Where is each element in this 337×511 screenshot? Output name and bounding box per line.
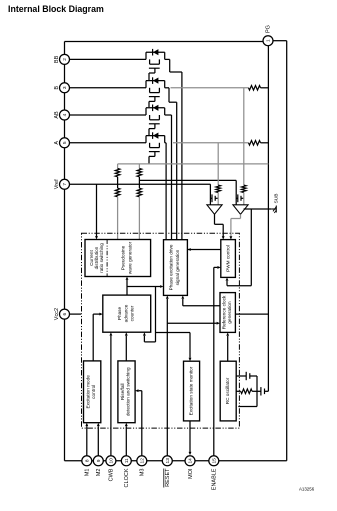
wire CWB to phase advance counter (110, 336, 112, 456)
svg-text:SUB: SUB (274, 193, 280, 203)
pin 4 (AB) (54, 110, 70, 120)
wire B line extension (171, 87, 249, 89)
wire phase excitation to reference clock (182, 299, 184, 306)
resistor R2 (A line to PG) (249, 141, 261, 146)
svg-text:M1: M1 (85, 469, 91, 477)
wire R2 to PG bus (261, 142, 269, 144)
wire IC frame left edge (64, 42, 66, 461)
pin 12 (M3) (137, 456, 147, 476)
svg-text:4: 4 (62, 113, 68, 116)
svg-text:6: 6 (62, 312, 68, 315)
svg-text:M2: M2 (96, 469, 102, 477)
pin 8 (M1) (82, 456, 92, 476)
chip boundary (dash-dot) (82, 233, 240, 428)
transistor Q4 (output A) (70, 132, 167, 239)
pin 2 (BB) (54, 54, 70, 64)
svg-text:9: 9 (96, 459, 102, 462)
wire divider2 tap line (139, 179, 236, 181)
wire excitation state monitor to MOI (189, 421, 191, 452)
svg-text:CWB: CWB (109, 468, 115, 481)
wire IC frame bottom edge (65, 460, 287, 462)
wire comp2 output (240, 214, 242, 218)
svg-text:B: B (54, 86, 60, 90)
wire RESET to phase excitation (166, 299, 168, 456)
wire pseudosine to phase advance counter (126, 280, 128, 295)
svg-text:Vcc2: Vcc2 (54, 308, 60, 320)
svg-text:8: 8 (85, 459, 91, 462)
resistor divider D1 (115, 164, 120, 240)
svg-text:12: 12 (140, 458, 146, 464)
wire RC osc mid lead (236, 390, 241, 392)
wire Vcc2 right segment (235, 313, 268, 315)
wire comp1 sense leg (217, 143, 219, 185)
wire Vcc2 to boundary (70, 313, 82, 315)
wire RESET to reference clock generation (167, 322, 216, 324)
svg-text:A13256: A13256 (299, 487, 315, 492)
svg-text:BB: BB (54, 55, 60, 63)
block: current distribution ratio switching + pseudosine wave generator box (85, 240, 151, 277)
block: rise/fall detection and switching (118, 361, 135, 423)
pin 11 (CLOCK) (121, 456, 131, 488)
wire M1 to excitation mode control (86, 426, 88, 456)
wire excitation mode to phase advance counter (93, 313, 99, 315)
wire C4 to PG bus (265, 390, 269, 392)
pin 13 (RESET) (162, 456, 172, 488)
resistor R3 (comp1 input) (216, 185, 221, 192)
svg-text:A: A (54, 141, 60, 145)
capacitor C2 (comp2 filter) (236, 197, 238, 199)
wire pseudosine output to excitation state monitor (155, 287, 157, 342)
capacitor C3 (RC osc) (245, 372, 247, 380)
svg-text:10: 10 (109, 458, 115, 464)
wire phase advance counter to rise/fall detection (125, 336, 127, 361)
svg-text:signal generation: signal generation (175, 249, 180, 285)
pin 7 (Vref) (54, 179, 70, 189)
svg-text:Excitation state monitor: Excitation state monitor (189, 366, 194, 415)
svg-text:RC oscillator: RC oscillator (225, 377, 230, 404)
svg-text:Vref: Vref (54, 179, 60, 189)
block: excitation state monitor (184, 361, 200, 421)
wire counter port to monitor feed (144, 341, 155, 343)
svg-text:1: 1 (266, 39, 272, 42)
op-amp U2 (comparator B) (233, 205, 248, 215)
pin 1 (PG) (263, 25, 273, 46)
wire comp1 output (214, 214, 216, 224)
pin 3 (B) (54, 83, 70, 93)
svg-text:Reference clock: Reference clock (221, 295, 226, 329)
wire PG bus vertical (267, 46, 269, 392)
resistor R4 (comp2 input) (242, 185, 247, 192)
block: RC oscillator (220, 361, 236, 421)
transistor Q1 (output BB) (70, 49, 182, 240)
svg-text:advance: advance (123, 304, 128, 322)
wire M2 to excitation mode control (97, 426, 99, 456)
svg-text:13: 13 (165, 458, 171, 464)
svg-text:Rise/fall: Rise/fall (120, 383, 125, 400)
block: reference clock generation (220, 293, 235, 333)
wire R5 to C4 (252, 390, 261, 392)
ground SUB symbol (271, 193, 279, 213)
wire Vref branch to current distribution block (96, 184, 98, 236)
pin 10 (CWB) (106, 456, 116, 482)
transistor Q2 (output B) (70, 77, 177, 239)
pin 5 (A) (54, 138, 70, 148)
svg-text:Phase: Phase (117, 306, 122, 320)
divider line inside block (106, 240, 108, 277)
wire comp2 ref leg (235, 180, 237, 204)
svg-text:wave generator: wave generator (127, 241, 132, 274)
wire comp1 ref leg (209, 184, 211, 205)
wire comp2 sense leg (243, 88, 245, 185)
svg-text:2: 2 (62, 58, 68, 61)
resistor R5 (RC osc) (241, 389, 252, 394)
wire gray rail (118, 163, 269, 165)
wire IC frame top edge (65, 41, 264, 43)
block: phase advance counter (103, 295, 151, 332)
wire A line extension (173, 142, 249, 144)
wire RC osc top loop (250, 375, 257, 377)
resistor R1 (B line to PG) (249, 86, 261, 91)
svg-text:ratio switching: ratio switching (99, 243, 104, 273)
wire CLOCK to rise/fall detection (125, 426, 127, 456)
capacitor C4 (RC osc) (260, 387, 262, 395)
pin 14 (MOI) (185, 456, 195, 479)
svg-text:M3: M3 (140, 469, 146, 477)
svg-text:detection and switching: detection and switching (126, 367, 131, 416)
svg-text:11: 11 (124, 458, 130, 463)
svg-text:counter: counter (130, 305, 135, 321)
wire SUB line (244, 208, 272, 210)
block: phase excitation drive signal generation (164, 240, 188, 296)
svg-text:5: 5 (62, 141, 68, 144)
pin 6 (Vcc2) (54, 308, 70, 320)
svg-text:ENABLE: ENABLE (212, 468, 218, 490)
wire ENABLE to PWM control (213, 267, 215, 455)
svg-text:generation: generation (227, 301, 232, 324)
svg-text:AB: AB (54, 111, 60, 119)
wire pseudosine output to phase excitation (127, 286, 160, 288)
wire comp1 sense to input (217, 193, 219, 205)
svg-text:PG: PG (265, 25, 271, 33)
pin 15 (ENABLE) (209, 456, 219, 490)
wire IC frame top right segment (273, 40, 287, 42)
svg-text:RESET: RESET (165, 468, 171, 487)
wire RC oscillator to reference clock (227, 336, 229, 361)
resistor divider D2 (137, 164, 142, 240)
svg-text:7: 7 (62, 183, 68, 186)
wire IC frame right edge (286, 41, 288, 461)
wire PWM to phase excitation (187, 249, 220, 251)
svg-text:CLOCK: CLOCK (124, 468, 130, 487)
transistor Q3 (output AB) (70, 105, 172, 240)
wire Vref line (70, 183, 211, 185)
svg-text:Excitation mode: Excitation mode (86, 375, 91, 409)
svg-text:control: control (91, 385, 96, 399)
svg-text:PWM control: PWM control (226, 245, 231, 272)
block: PWM control (221, 240, 236, 278)
wire R1 to PG bus (261, 87, 269, 89)
svg-text:14: 14 (188, 458, 194, 464)
pin 9 (M2) (93, 456, 103, 476)
svg-text:3: 3 (62, 86, 68, 89)
svg-text:15: 15 (212, 458, 218, 464)
svg-text:Phase excitation drive: Phase excitation drive (168, 244, 173, 290)
svg-text:MOI: MOI (188, 468, 194, 479)
wire comparator feedback to PWM bottom (250, 209, 252, 286)
block: excitation mode control (84, 361, 101, 423)
op-amp U1 (comparator A) (207, 205, 222, 215)
svg-text:Internal Block Diagram: Internal Block Diagram (8, 4, 104, 14)
wire M3 to rise/fall detection (141, 391, 143, 456)
svg-text:Pseudosine: Pseudosine (120, 245, 125, 270)
wire comp2 sense to input (243, 193, 245, 205)
wire RC osc top lead (236, 375, 246, 377)
capacitor C1 (comp1 filter) (210, 197, 212, 199)
wire excitation mode control riser (92, 314, 94, 361)
